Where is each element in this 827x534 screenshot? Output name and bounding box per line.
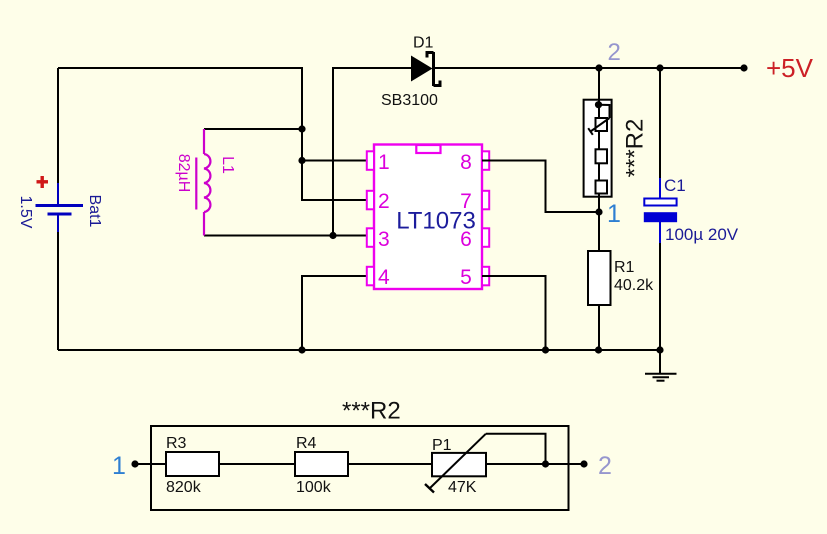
pin 1 stub (367, 151, 374, 170)
node 1 junction (595, 208, 602, 215)
wire node2 to node1 through R2 (598, 68, 600, 212)
wire L1 bottom to pin 3 (204, 235, 368, 237)
svg-text:100µ 20V: 100µ 20V (665, 225, 739, 244)
junction C1 top (656, 64, 663, 71)
resistor symbol bottom in R2 (596, 181, 608, 194)
terminal +5V dot (740, 64, 747, 71)
wire terminal1 to R3 (135, 463, 166, 465)
svg-text:1.5V: 1.5V (17, 196, 34, 229)
terminal 1 dot (131, 460, 138, 467)
op-amp/IC U1 LT1073 body (374, 145, 482, 290)
svg-text:***R2: ***R2 (621, 119, 648, 178)
wire R3 to R4 (219, 463, 295, 465)
svg-text:Bat1: Bat1 (86, 195, 103, 228)
svg-text:5: 5 (460, 266, 472, 289)
resistor R4 (295, 452, 348, 476)
svg-text:R3: R3 (166, 435, 187, 452)
svg-text:C1: C1 (664, 176, 686, 195)
junction wiper (542, 460, 549, 467)
diode D1 (411, 52, 440, 86)
svg-text:47K: 47K (448, 479, 477, 496)
wire diode branch vertical (333, 68, 411, 236)
pin 5 stub (482, 267, 489, 286)
svg-text:100k: 100k (296, 479, 332, 496)
battery Bat1 (36, 183, 84, 232)
potentiometer P1 (425, 434, 486, 493)
junction R1 bottom (595, 346, 602, 353)
svg-text:SB3100: SB3100 (381, 92, 438, 109)
resistor R1 (588, 212, 611, 350)
svg-text:LT1073: LT1073 (396, 207, 476, 234)
inductor L1 (196, 129, 210, 236)
ground (645, 350, 677, 381)
junction pin1 branch (298, 157, 305, 164)
junction L1 top (298, 125, 305, 132)
svg-text:P1: P1 (432, 437, 452, 454)
svg-text:***R2: ***R2 (342, 398, 401, 425)
pin 6 stub (482, 228, 489, 247)
capacitor C1 (644, 68, 676, 350)
pin 7 stub (482, 191, 489, 210)
resistor R3 (166, 452, 219, 476)
wire R4 to P1 (348, 463, 432, 465)
potentiometer symbol in R2 (588, 105, 609, 135)
resistor symbol mid in R2 (596, 149, 608, 163)
detail box R2 (151, 426, 569, 510)
wire top rail battery side (58, 68, 368, 200)
node 2 junction (595, 64, 602, 71)
junction L1 bottom (329, 232, 336, 239)
svg-text:2: 2 (378, 190, 390, 213)
resistor network R2 box (584, 100, 612, 197)
svg-text:R1: R1 (614, 259, 635, 276)
wire bottom rail (58, 349, 660, 351)
svg-text:1: 1 (112, 452, 126, 480)
pin 3 stub (367, 228, 374, 247)
svg-text:3: 3 (378, 228, 390, 251)
junction pin4 bottom (298, 346, 305, 353)
svg-text:2: 2 (598, 452, 612, 480)
svg-text:820k: 820k (166, 479, 202, 496)
wire top rail output side (435, 67, 744, 69)
pin 4 stub (367, 267, 374, 286)
svg-text:82µH: 82µH (175, 154, 192, 193)
svg-text:R4: R4 (296, 435, 317, 452)
wire pin 8 to node 1 (482, 161, 599, 213)
junction pin5 bottom (542, 346, 549, 353)
pin 2 stub (367, 191, 374, 210)
svg-text:L1: L1 (219, 156, 236, 174)
junction C1 bottom (656, 346, 663, 353)
svg-text:4: 4 (378, 266, 390, 289)
IC notch (416, 145, 440, 153)
svg-text:8: 8 (460, 151, 472, 174)
wire pin 4 (302, 276, 368, 350)
wire P1 wiper loop (486, 434, 546, 464)
wire P1 to terminal 2 (486, 463, 584, 465)
svg-text:40.2k: 40.2k (614, 277, 654, 294)
junction R2 top inside (595, 101, 602, 108)
svg-text:+5V: +5V (766, 53, 814, 83)
battery plus sign (37, 176, 49, 188)
wire L1 top to node (204, 128, 302, 130)
svg-text:1: 1 (378, 151, 390, 174)
wire pin 5 to ground rail (482, 276, 546, 350)
terminal 2 dot (580, 460, 587, 467)
svg-text:2: 2 (608, 39, 621, 66)
svg-text:1: 1 (607, 200, 621, 228)
wire battery vertical top (57, 68, 59, 183)
svg-text:D1: D1 (413, 35, 434, 52)
wire to pin 1 (302, 160, 368, 162)
pin 8 stub (482, 151, 489, 170)
wire battery vertical bottom (57, 232, 59, 350)
